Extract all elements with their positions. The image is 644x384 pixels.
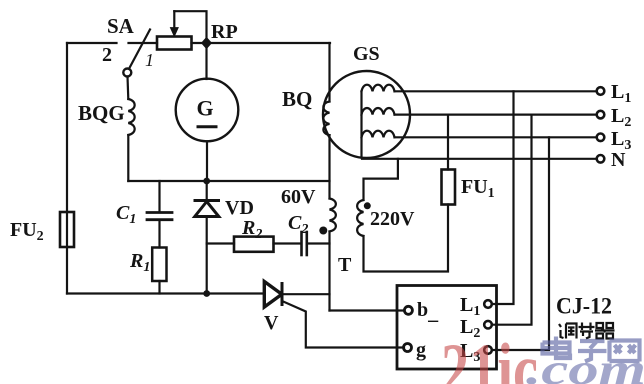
terminal L3 ring — [597, 134, 605, 142]
fuse FU1 body — [442, 170, 456, 205]
wire C2 to 60V winding column — [308, 242, 330, 244]
svg-text:V: V — [264, 312, 279, 334]
wire mid bus junction down to diode VD — [206, 181, 208, 201]
switch SA blade — [129, 30, 150, 69]
fuse FU2 body — [60, 212, 74, 247]
watermark 电子网 (drawn glyphs) — [543, 337, 640, 362]
wire meter G bottom to mid bus — [206, 141, 208, 181]
svg-text:BQG: BQG — [78, 101, 125, 125]
regulator box CJ-12 — [397, 286, 497, 370]
svg-text:C1: C1 — [116, 202, 136, 227]
winding 220V coil of transformer T — [357, 200, 363, 236]
resistor R2 body — [234, 237, 274, 252]
svg-text:R1: R1 — [129, 250, 150, 275]
wire switch pivot down to BQG coil — [126, 77, 129, 100]
wire R2 to C2 — [274, 242, 301, 244]
wire box L2 up to L2 row — [492, 115, 532, 325]
rheostat RP wiper bracket wire — [174, 11, 206, 43]
svg-text:g: g — [416, 339, 426, 361]
meter G circle — [176, 79, 239, 142]
rheostat RP body — [157, 37, 192, 50]
capacitor C2 plates — [300, 232, 303, 255]
svg-text:FU1: FU1 — [461, 176, 495, 201]
thyristor V triangle — [264, 282, 282, 308]
wire GS star bus — [360, 91, 362, 157]
glyph 网 — [610, 341, 640, 362]
wire SA contact 1 to RP — [129, 42, 158, 44]
svg-text:2: 2 — [102, 44, 112, 66]
wire VD anode down to bottom bus — [206, 217, 208, 294]
svg-text:L1: L1 — [611, 81, 631, 106]
wire BQG coil to mid bus — [127, 135, 129, 181]
terminal L2 ring — [597, 111, 605, 119]
svg-text:BQ: BQ — [282, 87, 312, 111]
svg-text:CJ-12: CJ-12 — [556, 294, 612, 319]
wire mid bus down to C1 — [158, 181, 160, 212]
generator GS circle — [323, 71, 410, 158]
wire thyristor anode (bottom bus end) — [263, 293, 265, 295]
wire junction down to meter G — [205, 43, 207, 79]
svg-text:1: 1 — [145, 50, 154, 70]
terminal box L1 ring — [484, 300, 492, 308]
wire top-left to SA contact 2 — [67, 42, 117, 44]
wire R1 to bottom bus — [158, 281, 160, 294]
node junction at RP output — [201, 37, 212, 49]
node polarity dot 60V winding — [319, 227, 327, 235]
thyristor V cathode bar — [281, 284, 284, 305]
wire BQ coil down to 60V winding — [328, 135, 330, 198]
switch SA pivot circle — [123, 69, 131, 77]
node junction VD/bottom bus — [203, 290, 210, 297]
wire box L1 up to L1 row — [492, 91, 514, 304]
svg-text:FU2: FU2 — [10, 219, 44, 244]
inductor BQG coil — [128, 99, 134, 135]
svg-text:21ic: 21ic — [441, 329, 538, 384]
wire C1 to R1 — [158, 221, 160, 248]
svg-text:GS: GS — [353, 43, 380, 65]
terminal b ring — [404, 306, 412, 314]
diode VD triangle — [195, 202, 219, 217]
terminal N ring — [597, 155, 605, 163]
terminal box L3 ring — [484, 346, 492, 354]
wire left bus vertical — [66, 43, 68, 294]
winding GS phase 1 — [362, 85, 395, 92]
wire N to transformer T jog — [364, 159, 398, 200]
wire L3 row — [395, 136, 597, 138]
svg-text:N: N — [611, 149, 626, 171]
svg-text:220V: 220V — [370, 208, 415, 230]
svg-text:C2: C2 — [288, 212, 308, 237]
rheostat RP wiper arrow — [173, 11, 175, 28]
wire box L3 up to L3 row — [492, 137, 549, 350]
svg-text:SA: SA — [107, 14, 135, 38]
svg-text:b_: b_ — [417, 299, 439, 324]
winding 60V coil of transformer T — [330, 199, 336, 232]
winding BQ coil — [323, 102, 329, 136]
wire 60V winding down to b-wire — [328, 232, 330, 311]
terminal box L2 ring — [484, 321, 492, 329]
thyristor V gate wire — [282, 301, 404, 348]
wire FU1 to L2 row — [447, 115, 449, 170]
wire N row — [362, 158, 597, 160]
svg-text:60V: 60V — [281, 186, 316, 208]
wire VD node to R2 — [207, 242, 234, 244]
wire mid bus — [128, 180, 329, 182]
winding GS phase 2 — [362, 108, 395, 115]
wire b terminal feed — [330, 309, 405, 311]
label 调节器 (drawn glyphs) — [559, 323, 615, 339]
meter G underline mark — [198, 125, 216, 128]
diode VD cathode bar — [195, 199, 219, 202]
winding GS phase 3 — [362, 131, 395, 138]
svg-text:VD: VD — [225, 197, 254, 219]
svg-text:T: T — [338, 254, 352, 276]
terminal L1 ring — [597, 87, 605, 95]
svg-text:G: G — [197, 96, 214, 121]
wire L2 row — [395, 113, 597, 115]
capacitor C1 plates — [147, 211, 172, 214]
wire thyristor cathode to column — [282, 293, 330, 295]
glyph 电 — [543, 337, 571, 359]
resistor R1 body — [152, 248, 166, 282]
wire bottom bus — [67, 292, 264, 294]
terminal g ring — [404, 344, 412, 352]
node junction G/mid-bus — [203, 178, 210, 185]
svg-text:R2: R2 — [241, 217, 262, 242]
wire 220V bottom to FU1 column — [364, 205, 449, 272]
svg-text:L2: L2 — [611, 105, 631, 130]
node polarity dot 220V winding — [364, 202, 371, 209]
wire top bus down into GS (BQ feed) — [328, 43, 330, 102]
wire L1 row — [395, 90, 597, 92]
wire top bus RP to BQ — [192, 42, 331, 44]
glyph 子 — [578, 341, 607, 362]
svg-text:RP: RP — [211, 21, 238, 43]
